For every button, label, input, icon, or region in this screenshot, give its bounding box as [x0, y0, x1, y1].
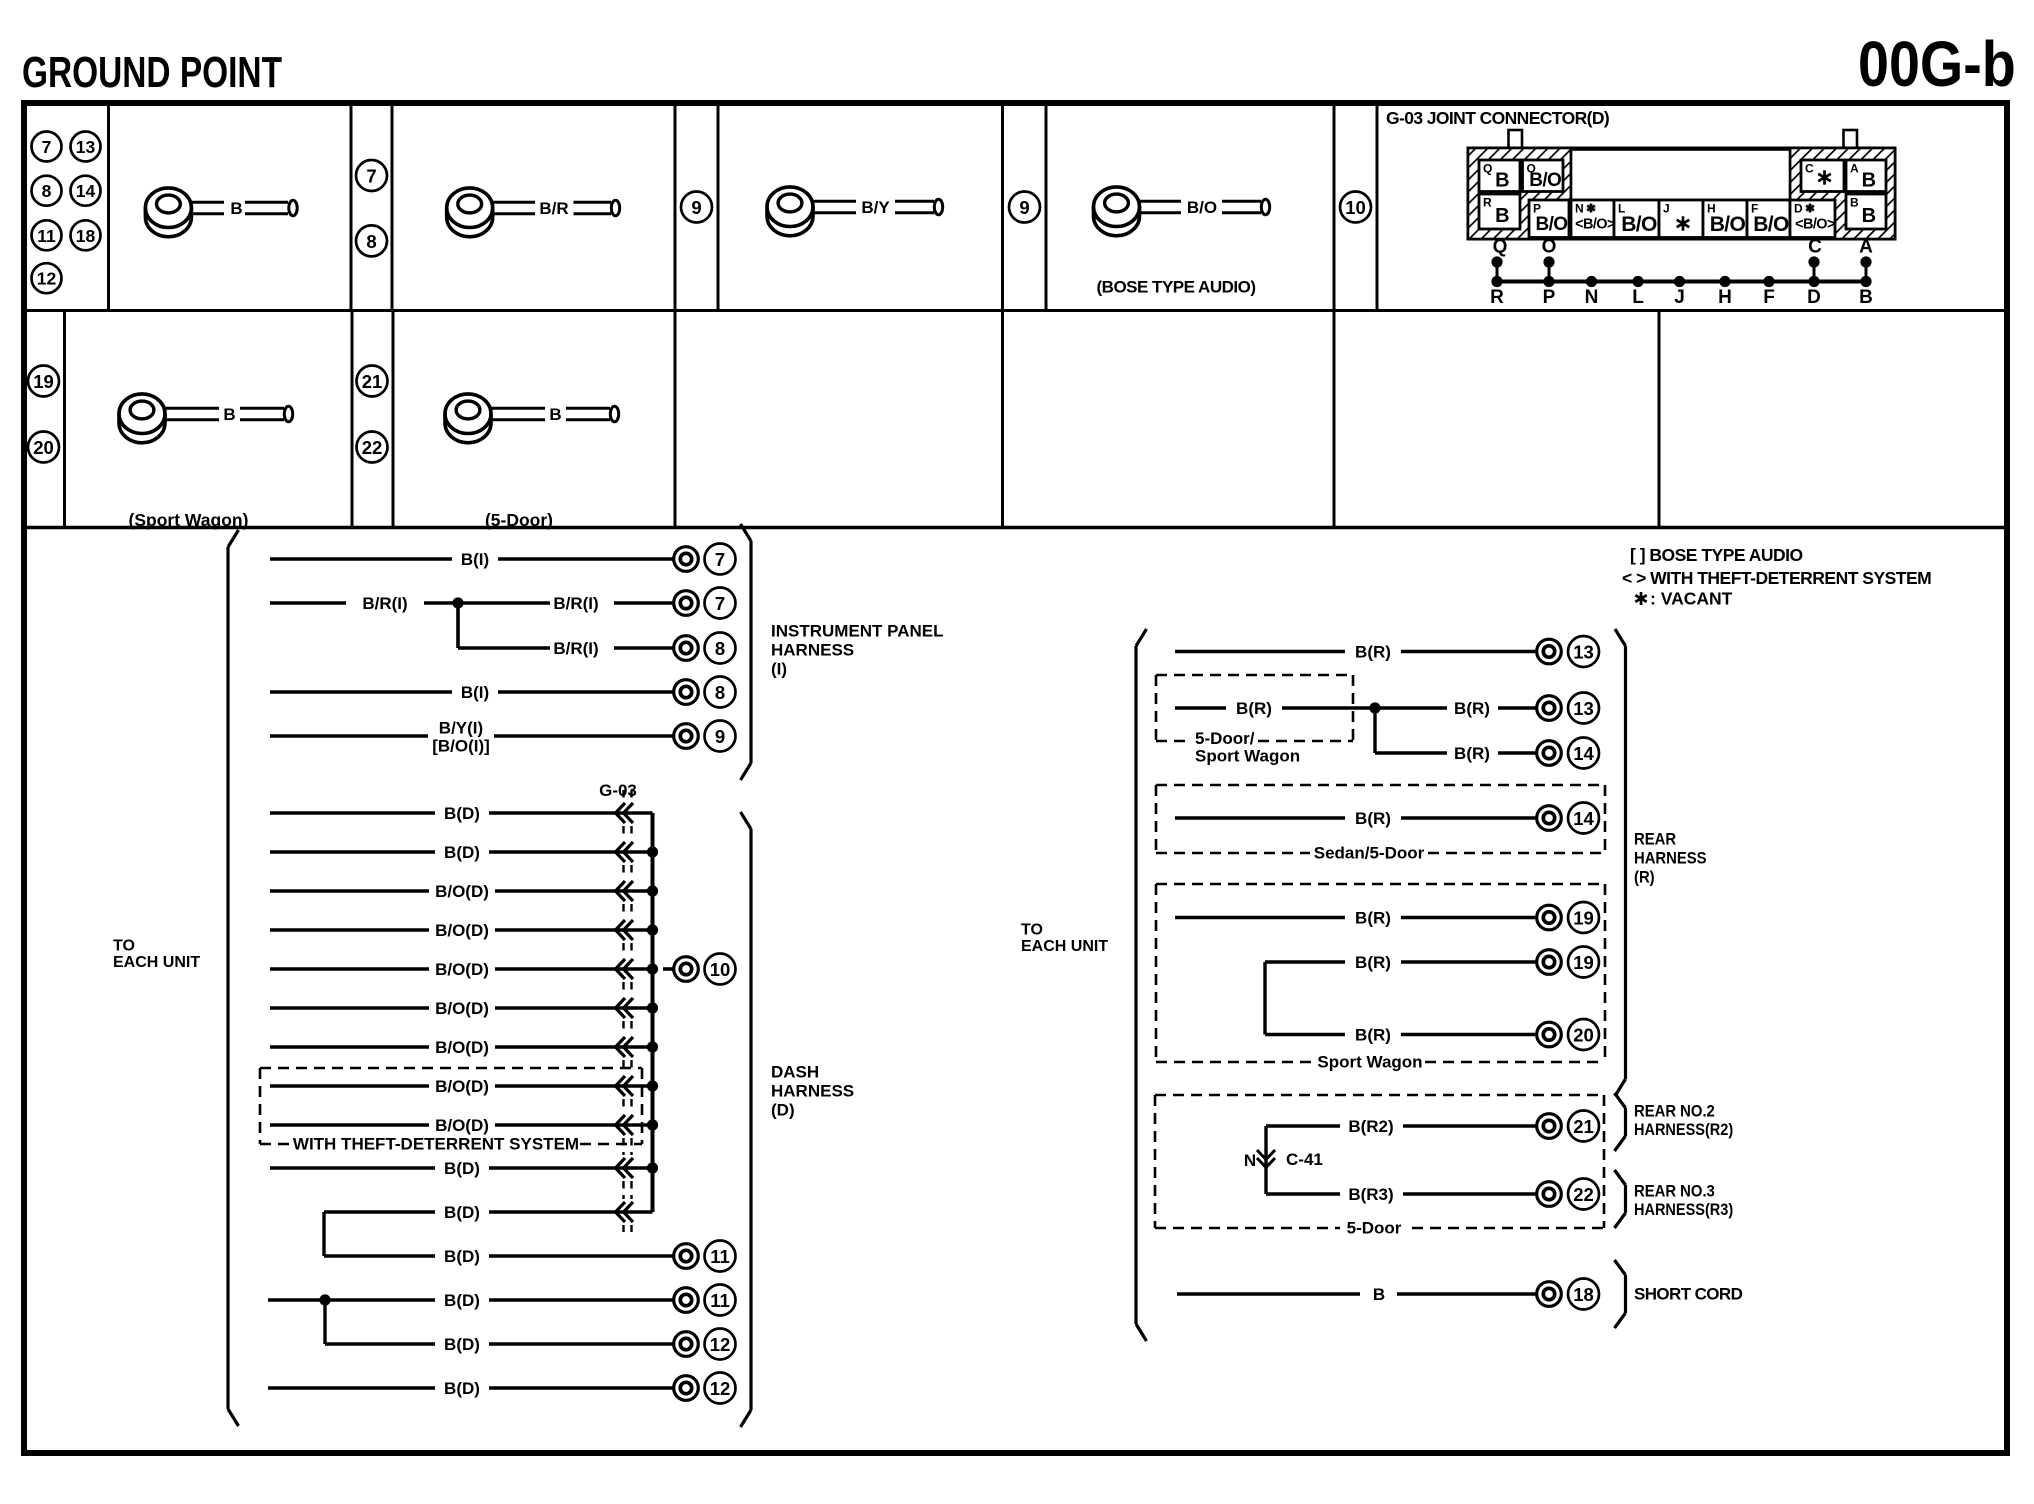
- label Sport Wagon: [129, 510, 249, 530]
- svg-text:8: 8: [42, 181, 52, 201]
- wire B/Y(I) [B/O(I)] to ground 9: [270, 719, 736, 756]
- connector pin letters Q O C A: [1493, 237, 1874, 258]
- connector pin R: [28, 160, 1931, 1427]
- svg-text:(R): (R): [1634, 869, 1655, 887]
- table row line 2: [24, 526, 2007, 529]
- ground lug B/R (cell 2): [447, 188, 620, 237]
- ground lug B (5-Door): [445, 394, 619, 443]
- svg-text:12: 12: [710, 1378, 731, 1399]
- label TO EACH UNIT left: [113, 938, 200, 972]
- svg-text:C-41: C-41: [1286, 1150, 1323, 1169]
- svg-text:B(D): B(D): [444, 1159, 480, 1178]
- svg-text:R: R: [1483, 196, 1492, 210]
- svg-text:B/O: B/O: [1529, 170, 1561, 191]
- connector number 9 column a: [681, 192, 712, 223]
- svg-text:B(D): B(D): [444, 1335, 480, 1354]
- svg-text:11: 11: [710, 1246, 730, 1267]
- svg-text:21: 21: [1573, 1116, 1594, 1137]
- svg-text:19: 19: [1573, 908, 1594, 929]
- wire B/O(D) dash harness row 8: [270, 1076, 658, 1096]
- wire B short cord to ground 18: [1177, 1279, 1599, 1310]
- right harness big bracket: [1136, 629, 1147, 1341]
- connector pin A: [28, 160, 1931, 1427]
- wire B(R) to ground 19 b: [1265, 947, 1599, 978]
- wire B(I) to ground 7: [270, 544, 736, 575]
- svg-text:B/R: B/R: [539, 199, 568, 218]
- svg-text:O: O: [1542, 237, 1557, 258]
- svg-text:B(D): B(D): [444, 843, 480, 862]
- svg-text:18: 18: [1573, 1284, 1594, 1305]
- svg-text:(I): (I): [771, 660, 787, 679]
- svg-text:L: L: [1632, 287, 1644, 308]
- svg-text:Q: Q: [1483, 162, 1492, 176]
- svg-text:B(D): B(D): [444, 1379, 480, 1398]
- svg-text:11: 11: [37, 226, 56, 246]
- rear no2 harness bracket: [1615, 1093, 1626, 1151]
- svg-text:12: 12: [37, 269, 57, 289]
- svg-text:WITH THEFT-DETERRENT SYSTEM: WITH THEFT-DETERRENT SYSTEM: [293, 1135, 579, 1154]
- svg-text:B(D): B(D): [444, 804, 480, 823]
- svg-text:HARNESS: HARNESS: [771, 641, 854, 660]
- label TO EACH UNIT right: [1021, 922, 1108, 956]
- svg-text:(5-Door): (5-Door): [485, 510, 553, 530]
- connector pin J: [28, 160, 1931, 1427]
- svg-text:B/R(I): B/R(I): [553, 639, 598, 658]
- svg-text:20: 20: [1573, 1025, 1594, 1046]
- label DASH HARNESS (D): [771, 1063, 854, 1120]
- svg-text:<B/O>: <B/O>: [1795, 217, 1835, 233]
- svg-text:14: 14: [1573, 808, 1594, 829]
- svg-text:00G-b: 00G-b: [1858, 28, 2016, 99]
- svg-text:SHORT CORD: SHORT CORD: [1634, 1285, 1743, 1304]
- wire B(D) to ground 11 a: [324, 1241, 736, 1272]
- svg-text:GROUND POINT: GROUND POINT: [22, 49, 282, 97]
- svg-text:13: 13: [1573, 642, 1594, 663]
- svg-text:20: 20: [33, 437, 54, 458]
- svg-text:<B/O>: <B/O>: [1575, 217, 1615, 233]
- connector pin H: [28, 160, 1931, 1427]
- svg-text:A: A: [1850, 162, 1859, 176]
- svg-text:B: B: [1862, 205, 1876, 227]
- svg-text:B(I): B(I): [461, 550, 489, 569]
- svg-text:(Sport Wagon): (Sport Wagon): [129, 510, 249, 530]
- svg-text:DASH: DASH: [771, 1063, 819, 1082]
- ground lug B (cell 1): [145, 188, 297, 237]
- connector G-03 label: [599, 781, 637, 800]
- svg-text:[B/O(I)]: [B/O(I)]: [432, 737, 490, 756]
- G-03 ground bus: [651, 813, 655, 1212]
- short cord bracket: [1615, 1260, 1626, 1328]
- svg-text:HARNESS(R3): HARNESS(R3): [1634, 1201, 1733, 1219]
- svg-text:B: B: [1495, 170, 1509, 192]
- dashed box Sedan/5-Door: [1156, 785, 1605, 863]
- rear harness bracket: [1615, 629, 1626, 1096]
- svg-text:B(D): B(D): [444, 1203, 480, 1222]
- label SHORT CORD: [1634, 1285, 1743, 1304]
- svg-text:Sport Wagon: Sport Wagon: [1317, 1053, 1422, 1072]
- wire B(D) branch to ground 12: [325, 1300, 736, 1360]
- wire B(D) dash harness row 10: [270, 1158, 658, 1178]
- label REAR HARNESS (R): [1634, 831, 1707, 887]
- svg-text:: VACANT: : VACANT: [1650, 589, 1733, 609]
- connector number 10 column: [1340, 192, 1371, 223]
- svg-text:14: 14: [1573, 743, 1594, 764]
- connector pin D: [28, 160, 1931, 1427]
- svg-text:14: 14: [76, 181, 96, 201]
- svg-text:B: B: [1373, 1285, 1385, 1304]
- connector bus letters R P N L J H F D B: [1490, 287, 1873, 308]
- svg-text:B/O(D): B/O(D): [435, 960, 489, 979]
- svg-text:B: B: [223, 405, 235, 424]
- svg-text:B(R): B(R): [1355, 953, 1391, 972]
- svg-text:B(R): B(R): [1355, 1026, 1391, 1045]
- wire B(R) to ground 14 b: [1175, 803, 1599, 834]
- svg-text:9: 9: [715, 726, 725, 747]
- svg-text:12: 12: [710, 1334, 731, 1355]
- wire B(D) dash harness row 11: [324, 1202, 653, 1222]
- svg-text:HARNESS: HARNESS: [771, 1082, 854, 1101]
- wire B(R2) to ground 21: [1266, 1111, 1599, 1142]
- svg-text:EACH UNIT: EACH UNIT: [113, 954, 200, 971]
- connector pin L: [28, 160, 1931, 1427]
- connector pin N: [28, 160, 1931, 1427]
- svg-text:7: 7: [366, 166, 376, 187]
- svg-text:B/Y: B/Y: [861, 198, 890, 217]
- legend vacant: [1635, 589, 1732, 609]
- svg-text:P: P: [1543, 287, 1556, 308]
- svg-text:< > WITH THEFT-DETERRENT SYSTE: < > WITH THEFT-DETERRENT SYSTEM: [1622, 568, 1931, 588]
- connector bus: [1491, 256, 1871, 287]
- svg-text:9: 9: [1019, 197, 1029, 218]
- svg-text:B/O(D): B/O(D): [435, 1038, 489, 1057]
- svg-text:(D): (D): [771, 1101, 795, 1120]
- svg-text:B/O(D): B/O(D): [435, 1077, 489, 1096]
- svg-text:D: D: [1794, 202, 1803, 216]
- connector pin C: [28, 160, 1931, 1427]
- dashed box 5-Door: [1155, 1095, 1604, 1238]
- svg-text:N: N: [1575, 202, 1584, 216]
- svg-text:A: A: [1859, 237, 1873, 258]
- legend bose type audio: [1630, 545, 1803, 565]
- svg-text:B: B: [1859, 287, 1873, 308]
- connector pin Q: [28, 160, 1931, 1427]
- svg-text:B/O: B/O: [1536, 214, 1568, 235]
- connector number 7/8 column: [356, 160, 387, 256]
- dash harness bracket: [741, 812, 752, 1427]
- svg-text:H: H: [1718, 287, 1732, 308]
- svg-text:REAR NO.2: REAR NO.2: [1634, 1103, 1715, 1121]
- label 5-Door cell: [485, 510, 553, 530]
- svg-text:B/R(I): B/R(I): [553, 594, 598, 613]
- svg-text:J: J: [1674, 287, 1685, 308]
- rear no3 harness bracket: [1615, 1170, 1626, 1228]
- svg-text:19: 19: [1573, 952, 1594, 973]
- svg-text:B(D): B(D): [444, 1247, 480, 1266]
- title GROUND POINT: [22, 49, 282, 97]
- svg-text:B/O(D): B/O(D): [435, 1116, 489, 1135]
- wire B/R(I) branch to ground 8: [458, 603, 736, 664]
- table row line 1: [24, 309, 2007, 312]
- ground lug B/O (cell 4): [1094, 187, 1270, 236]
- connector number 9 column b: [1009, 192, 1040, 223]
- wire B(I) to ground 8: [270, 677, 736, 708]
- svg-text:REAR: REAR: [1634, 831, 1676, 849]
- left harness big bracket: [228, 530, 239, 1426]
- svg-text:F: F: [1763, 287, 1775, 308]
- svg-text:B/O(D): B/O(D): [435, 921, 489, 940]
- wire B/R(I) to ground 7 with branch node: [270, 588, 736, 619]
- svg-text:B/Y(I): B/Y(I): [439, 719, 483, 738]
- label REAR NO.3 HARNESS(R3): [1634, 1183, 1733, 1219]
- row1 column lines: [109, 103, 1378, 311]
- svg-text:10: 10: [710, 959, 731, 980]
- svg-text:EACH UNIT: EACH UNIT: [1021, 938, 1108, 955]
- wire B/O(D) dash harness row 3: [270, 881, 658, 901]
- wire B(R) to ground 20: [1265, 1019, 1599, 1050]
- svg-text:B(R): B(R): [1355, 909, 1391, 928]
- svg-text:13: 13: [76, 137, 96, 157]
- joint connector title: [1386, 108, 1609, 128]
- svg-text:D: D: [1807, 287, 1821, 308]
- svg-text:R: R: [1490, 287, 1504, 308]
- svg-text:B(R): B(R): [1454, 699, 1490, 718]
- wire link 19-20: [1263, 962, 1266, 1035]
- svg-text:18: 18: [76, 226, 96, 246]
- svg-text:Sedan/5-Door: Sedan/5-Door: [1314, 844, 1425, 863]
- legend theft-deterrent: [1622, 568, 1931, 588]
- inline connector C-41: [1244, 1126, 1323, 1194]
- svg-text:13: 13: [1573, 698, 1594, 719]
- svg-text:7: 7: [715, 593, 725, 614]
- svg-text:7: 7: [42, 137, 52, 157]
- svg-text:B(D): B(D): [444, 1291, 480, 1310]
- wire B(R3) to ground 22: [1266, 1179, 1599, 1210]
- svg-text:TO: TO: [113, 938, 135, 955]
- svg-text:21: 21: [362, 371, 383, 392]
- svg-text:9: 9: [691, 197, 701, 218]
- wire B(D) step link: [322, 1212, 325, 1256]
- svg-text:HARNESS(R2): HARNESS(R2): [1634, 1121, 1733, 1139]
- wire B(D) dash harness row 2: [270, 842, 658, 862]
- svg-text:N: N: [1585, 287, 1599, 308]
- connector pin P: [28, 160, 1931, 1427]
- svg-text:22: 22: [362, 437, 383, 458]
- svg-text:B: B: [230, 199, 242, 218]
- svg-text:B/O: B/O: [1710, 213, 1746, 236]
- svg-text:B: B: [1862, 170, 1876, 192]
- connector pin B: [28, 194, 1931, 1427]
- svg-text:7: 7: [715, 549, 725, 570]
- wire B(D) to ground 11 b with node: [268, 1285, 736, 1316]
- ground point numbers 19 20: [28, 366, 59, 463]
- instrument panel harness bracket: [741, 524, 752, 780]
- svg-text:N: N: [1244, 1151, 1256, 1170]
- svg-text:5-Door: 5-Door: [1347, 1219, 1402, 1238]
- wire B(R) branch to ground 14: [1375, 708, 1599, 769]
- svg-text:C: C: [1805, 162, 1814, 176]
- svg-text:B/O: B/O: [1621, 213, 1657, 236]
- label INSTRUMENT PANEL HARNESS (I): [771, 622, 944, 679]
- svg-text:C: C: [1808, 237, 1822, 258]
- svg-text:B(R): B(R): [1355, 809, 1391, 828]
- svg-text:B/O: B/O: [1753, 213, 1789, 236]
- svg-text:B(I): B(I): [461, 683, 489, 702]
- svg-text:8: 8: [715, 638, 725, 659]
- svg-text:B/O: B/O: [1187, 198, 1217, 217]
- svg-text:22: 22: [1573, 1184, 1594, 1205]
- wire B(R) to ground 13 b with node: [1175, 693, 1599, 724]
- svg-text:10: 10: [1345, 197, 1366, 218]
- ground lug B (Sport Wagon): [119, 394, 293, 443]
- wire B(R) to ground 13 a: [1175, 636, 1599, 667]
- theft-deterrent dashed box: [260, 1068, 642, 1154]
- svg-text:8: 8: [715, 682, 725, 703]
- ground point numbers 7 13 8 14 11 18 12: [32, 132, 101, 294]
- svg-text:B: B: [1495, 205, 1509, 227]
- ground point numbers 21 22: [357, 366, 388, 463]
- svg-text:G-03 JOINT CONNECTOR(D): G-03 JOINT CONNECTOR(D): [1386, 108, 1609, 128]
- svg-text:B(R): B(R): [1355, 643, 1391, 662]
- wire B/O(D) dash harness row 7: [270, 1037, 658, 1057]
- svg-text:REAR NO.3: REAR NO.3: [1634, 1183, 1715, 1201]
- svg-text:Sport Wagon: Sport Wagon: [1195, 747, 1300, 766]
- svg-text:11: 11: [710, 1290, 730, 1311]
- svg-text:B/R(I): B/R(I): [362, 594, 407, 613]
- svg-text:8: 8: [366, 231, 376, 252]
- svg-text:B: B: [549, 405, 561, 424]
- svg-text:TO: TO: [1021, 922, 1043, 939]
- connector pin F: [28, 160, 1931, 1427]
- svg-text:B: B: [1850, 196, 1859, 210]
- ground lug B/Y (cell 3): [767, 187, 943, 236]
- svg-text:B(R): B(R): [1236, 699, 1272, 718]
- svg-text:B(R): B(R): [1454, 744, 1490, 763]
- svg-text:J: J: [1663, 202, 1670, 216]
- svg-text:B/O(D): B/O(D): [435, 999, 489, 1018]
- svg-text:19: 19: [33, 371, 54, 392]
- label BOSE TYPE AUDIO: [1097, 278, 1256, 297]
- wire B(D) dash harness row 1: [270, 803, 653, 823]
- svg-text:B(R2): B(R2): [1348, 1117, 1393, 1136]
- G-03 connector boundary dashed lines: [624, 790, 632, 1232]
- wire B/O(D) dash harness row 6: [270, 998, 658, 1018]
- svg-text:B(R3): B(R3): [1348, 1185, 1393, 1204]
- svg-text:B/O(D): B/O(D): [435, 882, 489, 901]
- svg-text:(BOSE TYPE AUDIO): (BOSE TYPE AUDIO): [1097, 278, 1256, 297]
- wire B(D) to ground 12: [268, 1373, 736, 1404]
- dashed box Sport Wagon: [1156, 884, 1605, 1072]
- svg-text:HARNESS: HARNESS: [1634, 850, 1707, 868]
- svg-text:INSTRUMENT PANEL: INSTRUMENT PANEL: [771, 622, 944, 641]
- wire B/O(D) dash harness row 5: [270, 954, 736, 985]
- connector pin O: [28, 160, 1931, 1427]
- wire B/O(D) dash harness row 9: [270, 1115, 658, 1135]
- label REAR NO.2 HARNESS(R2): [1634, 1103, 1733, 1139]
- joint connector body: [1468, 130, 1895, 239]
- page code 00G-b: [1858, 28, 2016, 99]
- dashed box 5-Door/Sport Wagon: [1156, 675, 1353, 766]
- wire B(R) to ground 19 a: [1175, 902, 1599, 933]
- svg-text:[ ] BOSE TYPE AUDIO: [ ] BOSE TYPE AUDIO: [1630, 545, 1803, 565]
- svg-text:Q: Q: [1493, 237, 1508, 258]
- row2 column lines: [65, 311, 1660, 528]
- wire B/O(D) dash harness row 4: [270, 920, 658, 940]
- svg-text:5-Door/: 5-Door/: [1195, 729, 1255, 748]
